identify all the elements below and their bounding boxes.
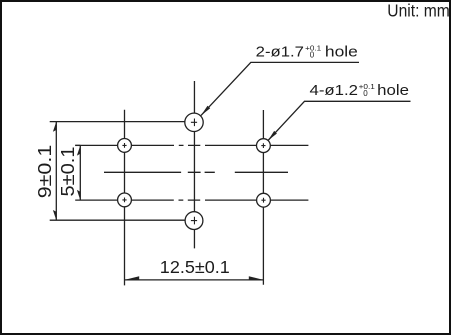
dimension line 12.5 horizontal — [125, 279, 264, 281]
hole S3 small bottom-left — [118, 193, 132, 207]
hole S4 small bottom-right — [257, 193, 271, 207]
arrowhead leader 2-dia1.7 — [201, 106, 210, 116]
extension line 5dim top — [75, 144, 80, 146]
arrowhead leader 4-dia1.2 — [268, 131, 277, 141]
hole S2 small top-right — [257, 139, 271, 153]
leader line for 4-dia1.2 label — [268, 101, 411, 140]
svg-text:0: 0 — [310, 51, 315, 60]
svg-text:4-ø1.2: 4-ø1.2 — [310, 82, 359, 99]
hole S2 center cross — [261, 143, 265, 148]
hole L1 large top — [185, 113, 203, 131]
extension line 9dim bottom — [50, 219, 186, 221]
svg-text:9±0.1: 9±0.1 — [34, 145, 55, 199]
dimension line 5 vertical — [79, 145, 81, 200]
arrowhead 9dim bottom — [53, 210, 56, 220]
centerline vertical left column — [124, 110, 126, 286]
hole L1 center cross — [191, 119, 197, 127]
svg-text:hole: hole — [325, 43, 358, 60]
svg-text:Unit: mm: Unit: mm — [387, 1, 450, 21]
dimension line 9 vertical — [55, 122, 57, 221]
centerline horizontal bottom hole row — [75, 199, 308, 201]
hole S1 small top-left — [118, 139, 132, 153]
svg-text:0: 0 — [363, 89, 368, 98]
hole S3 center cross — [122, 198, 126, 203]
hole S1 center cross — [122, 143, 126, 148]
svg-text:2-ø1.7: 2-ø1.7 — [256, 43, 304, 60]
extension line 9dim top — [50, 121, 185, 123]
arrowhead 5dim top — [77, 145, 80, 155]
arrowhead 12.5dim right — [249, 276, 264, 280]
arrowhead 9dim top — [53, 122, 56, 132]
svg-text:hole: hole — [377, 82, 409, 99]
svg-text:12.5±0.1: 12.5±0.1 — [160, 257, 230, 277]
centerline vertical middle column — [193, 81, 195, 248]
label 4-dia1.2 hole — [310, 82, 410, 99]
hole L2 large bottom — [185, 212, 203, 230]
hole L2 center cross — [191, 217, 197, 225]
hole S4 center cross — [261, 198, 265, 203]
svg-text:5±0.1: 5±0.1 — [57, 147, 78, 197]
label 2-dia1.7 hole — [256, 43, 358, 60]
centerline horizontal top hole row — [75, 144, 308, 146]
centerline horizontal middle dashed — [104, 171, 288, 173]
leader line for 2-dia1.7 label — [201, 62, 359, 115]
arrowhead 12.5dim left — [125, 276, 140, 280]
arrowhead 5dim bottom — [77, 190, 80, 200]
centerline vertical right column — [262, 110, 264, 285]
